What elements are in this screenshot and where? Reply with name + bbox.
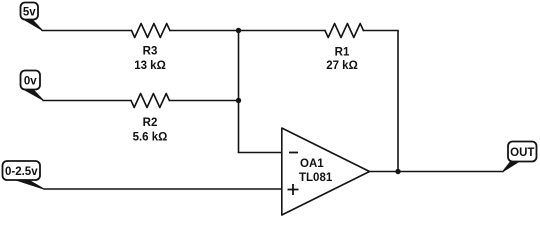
svg-text:OA1: OA1 (300, 158, 324, 170)
wire feedback vertical (397, 31, 399, 172)
wire 0v lead to R2 (43, 100, 131, 102)
op-amp plus sign (288, 184, 299, 195)
node A junction dot (R3/R2 join) (236, 28, 241, 33)
resistor R2 (131, 94, 169, 108)
svg-text:5.6 kΩ: 5.6 kΩ (133, 132, 168, 144)
wire R1 to right vertical (363, 30, 398, 32)
node junction dot output (395, 169, 400, 174)
wire R2 to node A (169, 100, 238, 102)
node junction dot R2 row (236, 98, 241, 103)
callout OUT (503, 142, 537, 172)
callout 5v (21, 3, 43, 31)
wire 0-2.5v to non-inverting input (44, 188, 282, 190)
wire to inverting input (239, 152, 282, 154)
svg-text:0v: 0v (24, 76, 37, 88)
resistor R1 (325, 24, 363, 38)
wire 5v lead to R3 (42, 30, 132, 32)
svg-text:R3: R3 (143, 46, 158, 58)
wire R3 to node A (170, 30, 239, 32)
op-amp OA1 TL081 (282, 128, 370, 215)
wire op-amp output (370, 171, 504, 173)
svg-text:13 kΩ: 13 kΩ (134, 60, 166, 72)
wire node A vertical (238, 31, 240, 153)
svg-text:R1: R1 (335, 47, 350, 59)
op-amp minus sign (289, 152, 298, 154)
callout 0v (21, 71, 44, 101)
callout 0-2.5v (3, 161, 45, 189)
wire node A to R1 (239, 30, 326, 32)
svg-text:R2: R2 (143, 117, 158, 129)
svg-text:OUT: OUT (510, 147, 534, 159)
svg-text:TL081: TL081 (299, 172, 333, 184)
svg-text:0-2.5v: 0-2.5v (5, 166, 38, 178)
resistor R3 (132, 24, 170, 38)
svg-text:27 kΩ: 27 kΩ (326, 60, 358, 72)
svg-text:5v: 5v (23, 7, 36, 19)
